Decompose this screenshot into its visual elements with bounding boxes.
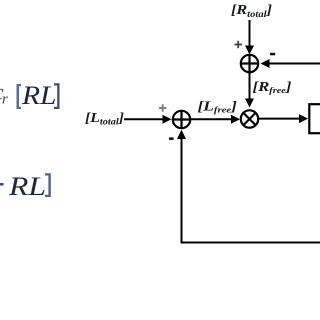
wire S2 to multiplier [249,73,251,101]
feedback wire vertical [181,137,183,243]
wire multiplier output to block [259,118,302,120]
svg-text:r: r [2,92,8,108]
svg-text:RL: RL [21,81,57,110]
multiplier junction X1 [241,110,258,127]
block (transfer function box, cropped at right edge) [309,104,320,133]
feedback wire horizontal [181,242,320,244]
svg-text:RL: RL [8,172,46,201]
plus sign at summing junction S2 [235,41,243,48]
math fragment c_r[RL] (cropped equation, left edge) [0,80,60,110]
minus sign at summing junction S1 [169,137,174,140]
plus sign at summing junction S1 [159,104,167,111]
summing junction S2 [241,55,258,72]
wire R_total input (down into S2) [249,20,251,47]
wire L_free (S1 to multiplier) [191,118,234,120]
minus sign at summing junction S2 [270,53,275,56]
math fragment - RL] (cropped equation, left edge) [0,172,51,201]
wire L_total input [124,118,164,120]
summing junction S1 [173,111,190,128]
wire from right into S2 [268,63,320,65]
